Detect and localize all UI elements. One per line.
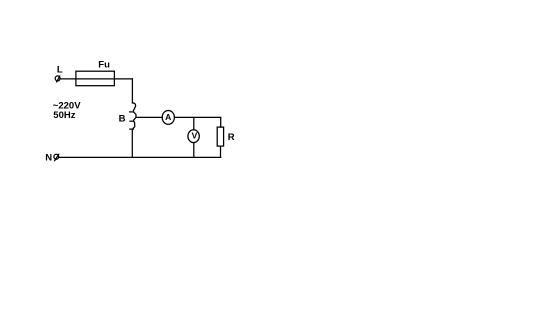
svg-text:A: A — [165, 112, 171, 122]
terminal N — [54, 154, 59, 161]
wire corner down to coil — [131, 79, 133, 103]
ammeter A body — [162, 111, 174, 125]
voltmeter V body — [188, 130, 199, 143]
svg-text:R: R — [228, 132, 235, 143]
wire coil junction to ammeter — [136, 116, 162, 118]
wire fuse to corner — [114, 78, 132, 80]
inductor B coil — [130, 103, 137, 129]
svg-text:50Hz: 50Hz — [53, 110, 75, 121]
wire right corner down to resistor — [220, 117, 222, 127]
svg-text:N: N — [45, 153, 52, 164]
svg-text:L: L — [57, 64, 63, 75]
terminal L — [55, 76, 60, 82]
wire coil bottom down to bottom rail — [131, 129, 133, 157]
wire resistor to bottom rail — [220, 146, 222, 157]
wire bottom rail — [59, 156, 221, 158]
wire ammeter to right corner — [174, 116, 220, 118]
resistor R body — [217, 127, 223, 146]
fuse FU body — [76, 71, 115, 86]
svg-text:B: B — [119, 113, 126, 124]
wire through fuse — [76, 78, 115, 80]
wire L to fuse — [60, 78, 76, 80]
svg-text:Fu: Fu — [98, 60, 110, 71]
node junction voltmeter tap — [193, 117, 195, 129]
wire voltmeter to bottom rail — [193, 143, 195, 158]
svg-text:V: V — [192, 131, 198, 141]
